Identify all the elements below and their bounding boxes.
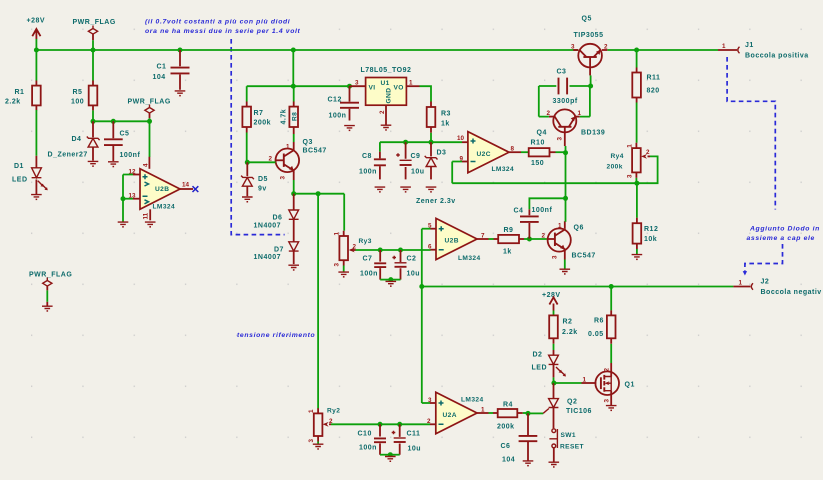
transistor Q4 BD139 <box>553 109 576 132</box>
svg-text:100n: 100n <box>360 271 378 278</box>
ground under U2D inputs <box>118 222 129 228</box>
wire row y=86 <box>247 85 350 87</box>
svg-text:Q5: Q5 <box>582 16 592 23</box>
wire tensione riferimento vertical <box>317 194 319 409</box>
svg-text:1: 1 <box>558 223 562 230</box>
svg-text:4.7k: 4.7k <box>281 109 288 125</box>
wire feedback row y=183.2 <box>452 182 637 184</box>
svg-text:C6: C6 <box>501 443 511 450</box>
wire gate row to Q1 <box>554 382 582 384</box>
switch SW1 RESET <box>552 429 556 433</box>
svg-text:LED: LED <box>12 177 28 184</box>
ground under C6 <box>523 461 534 467</box>
svg-text:820: 820 <box>647 88 660 95</box>
svg-text:150: 150 <box>531 160 544 167</box>
resistor R10 150 <box>529 148 550 156</box>
svg-text:R6: R6 <box>594 318 604 325</box>
svg-text:LM324: LM324 <box>153 204 176 211</box>
svg-text:C9: C9 <box>411 153 421 160</box>
svg-text:3: 3 <box>557 137 564 141</box>
svg-text:100n: 100n <box>329 113 347 120</box>
svg-text:SW1: SW1 <box>561 432 577 439</box>
svg-text:12: 12 <box>129 169 137 176</box>
svg-text:R3: R3 <box>441 111 451 118</box>
ground under SW1 <box>549 462 560 468</box>
diode D4 zener <box>92 121 94 137</box>
svg-text:2: 2 <box>547 110 551 117</box>
svg-text:ora ne ha messi due in serie p: ora ne ha messi due in serie per 1.4 vol… <box>145 28 301 35</box>
svg-text:R2: R2 <box>563 319 573 326</box>
svg-text:BC547: BC547 <box>303 148 327 155</box>
svg-text:J2: J2 <box>761 279 770 286</box>
wire Ry3 wiper row y=250 <box>356 249 431 251</box>
resistor R2 2.2k <box>553 315 555 343</box>
svg-text:Ry4: Ry4 <box>611 153 624 160</box>
ground under Q1 <box>606 406 617 412</box>
svg-text:Boccola positiva: Boccola positiva <box>745 53 809 60</box>
svg-text:100nf: 100nf <box>120 152 141 159</box>
ground under U1 <box>381 125 392 131</box>
ground under C8 <box>375 187 386 193</box>
resistor R12 10k <box>636 183 638 218</box>
wire row y=142.8 (C8 C9 D3 to pin10) <box>380 141 462 143</box>
thyristor Q2 TIC106 <box>553 383 555 399</box>
resistor R3 1k <box>420 86 432 101</box>
svg-text:TIC106: TIC106 <box>566 408 592 415</box>
svg-text:100nf: 100nf <box>532 207 553 214</box>
svg-text:C10: C10 <box>358 431 372 438</box>
diode D6 1N4007 <box>293 194 295 210</box>
svg-text:1k: 1k <box>503 249 512 256</box>
svg-text:10: 10 <box>457 135 465 142</box>
ground under Ry2 <box>313 444 324 450</box>
svg-text:1: 1 <box>578 110 582 117</box>
capacitor C12 100n <box>349 86 351 120</box>
svg-text:LM324: LM324 <box>458 255 481 262</box>
svg-text:R9: R9 <box>504 227 514 234</box>
svg-text:1: 1 <box>627 144 634 148</box>
svg-text:TIP3055: TIP3055 <box>574 32 604 39</box>
ground under C10/C11 <box>385 457 396 463</box>
svg-text:10u: 10u <box>411 169 425 176</box>
svg-text:C8: C8 <box>362 153 372 160</box>
svg-text:LM324: LM324 <box>492 166 515 173</box>
pin 12 wire <box>133 174 140 176</box>
ground under R12 <box>632 255 643 261</box>
svg-text:D5: D5 <box>258 176 268 183</box>
svg-text:10u: 10u <box>407 271 421 278</box>
potentiometer Ry4 200k <box>635 143 637 178</box>
ground under U2D pin11 <box>145 222 156 228</box>
svg-text:LM324: LM324 <box>461 397 484 404</box>
wire main +28V rail <box>36 49 578 51</box>
ground under C5 <box>108 162 119 168</box>
wire U2B pin5 from vertical <box>421 229 423 403</box>
svg-text:2.2k: 2.2k <box>5 99 21 106</box>
svg-text:100n: 100n <box>359 445 377 452</box>
ground under D3 <box>426 187 437 193</box>
capacitor C4 100nf <box>528 209 530 239</box>
svg-text:200k: 200k <box>254 120 272 127</box>
svg-text:GND: GND <box>386 88 393 104</box>
svg-text:U2C: U2C <box>477 151 491 158</box>
capacitor C6 104 <box>527 413 529 460</box>
svg-text:0.05: 0.05 <box>588 331 604 338</box>
ground under C7/C2 <box>386 281 397 287</box>
svg-text:6: 6 <box>428 244 432 251</box>
ground under C12 <box>344 126 355 132</box>
svg-text:104: 104 <box>153 74 166 81</box>
svg-text:C7: C7 <box>363 256 373 263</box>
svg-text:100n: 100n <box>359 169 377 176</box>
resistor R8 4.7k (vertical labels) <box>293 86 295 101</box>
svg-text:3300pf: 3300pf <box>553 98 578 105</box>
svg-text:R1: R1 <box>15 89 25 96</box>
diode D5 zener 9v <box>246 162 248 176</box>
resistor R4 200k <box>493 412 498 414</box>
wire node row R5/D4/C5/flag <box>93 120 150 122</box>
capacitor C3 3300pf <box>539 85 557 87</box>
svg-text:Q4: Q4 <box>537 130 547 137</box>
svg-text:5: 5 <box>428 223 432 230</box>
svg-text:2.2k: 2.2k <box>562 329 578 336</box>
svg-text:C11: C11 <box>407 431 421 438</box>
svg-text:3: 3 <box>604 399 611 403</box>
svg-text:2: 2 <box>542 233 546 240</box>
svg-text:R11: R11 <box>647 75 661 82</box>
svg-text:R10: R10 <box>531 140 545 147</box>
op-amp U2C LM324 (pins 10,9,8) <box>468 132 509 173</box>
svg-text:3: 3 <box>334 263 341 267</box>
svg-text:C4: C4 <box>514 208 524 215</box>
diode D7 1N4007 <box>289 242 299 251</box>
ground under D5 <box>242 197 253 203</box>
ground under C1 <box>175 91 186 97</box>
svg-text:D_Zener27: D_Zener27 <box>48 152 88 159</box>
svg-text:1: 1 <box>409 80 413 87</box>
svg-text:Q6: Q6 <box>574 225 584 232</box>
svg-text:2: 2 <box>604 368 611 372</box>
svg-text:3: 3 <box>627 174 634 178</box>
svg-text:2: 2 <box>604 44 608 51</box>
svg-text:U2B: U2B <box>445 238 459 245</box>
resistor R1 <box>35 50 37 81</box>
svg-text:BD139: BD139 <box>581 130 605 137</box>
ground under PWR_FLAG <box>42 306 53 312</box>
svg-text:104: 104 <box>502 457 515 464</box>
capacitor C9 10u (polarized) <box>405 142 407 179</box>
svg-text:C2: C2 <box>407 256 417 263</box>
pin 13 wire <box>133 198 140 200</box>
svg-text:11: 11 <box>142 212 149 219</box>
svg-text:1: 1 <box>308 409 315 413</box>
svg-text:2: 2 <box>427 418 431 425</box>
svg-text:D1: D1 <box>14 163 24 170</box>
svg-text:U1: U1 <box>381 80 390 87</box>
note: linea blu tratteggiata sinistra <box>231 39 284 235</box>
svg-text:1: 1 <box>583 377 587 384</box>
svg-text:2: 2 <box>646 149 650 156</box>
wire Q3 base <box>247 161 275 163</box>
wire to SCR gate <box>528 412 543 414</box>
svg-text:1: 1 <box>722 43 726 50</box>
wire from rail down to row y=86 <box>292 50 294 86</box>
svg-text:R5: R5 <box>73 89 83 96</box>
svg-text:(il 0.7volt costanti a più con: (il 0.7volt costanti a più con più diodi <box>145 19 290 26</box>
svg-text:3: 3 <box>308 439 315 443</box>
capacitor C1 104 <box>179 50 181 90</box>
svg-text:assieme a cap ele: assieme a cap ele <box>747 235 816 242</box>
svg-text:Q2: Q2 <box>567 399 577 406</box>
svg-text:L78L05_TO92: L78L05_TO92 <box>361 67 412 74</box>
svg-text:Aggiunto Diodo in: Aggiunto Diodo in <box>749 226 820 233</box>
note: linea blu tratteggiata da J1 a J2 <box>727 57 775 210</box>
resistor R9 1k <box>494 238 499 240</box>
svg-text:U2B: U2B <box>155 186 169 193</box>
svg-text:3: 3 <box>571 44 575 51</box>
op-amp U2D LM324 (pins 12,13,14) <box>140 169 180 210</box>
svg-text:+28V: +28V <box>27 18 46 25</box>
svg-text:VO: VO <box>394 85 404 92</box>
svg-text:9: 9 <box>460 156 464 163</box>
svg-text:3: 3 <box>428 397 432 404</box>
op-amp U2A LM324 (pins 3,2,1) <box>436 392 477 433</box>
transistor Q6 BC547 <box>548 228 571 251</box>
wire rail right of Q5 to J1 <box>607 49 718 51</box>
resistor R5 <box>92 81 94 86</box>
svg-text:3: 3 <box>355 80 359 87</box>
resistor R6 0.05 <box>610 287 612 311</box>
transistor Q1 MOSFET <box>595 371 619 395</box>
svg-text:BC547: BC547 <box>572 253 596 260</box>
wire Q4 node vertical <box>565 146 567 198</box>
capacitor C5 100nf <box>112 121 114 161</box>
diode D1 LED <box>35 156 37 168</box>
svg-text:8: 8 <box>511 146 515 153</box>
svg-text:R8: R8 <box>292 112 299 121</box>
svg-text:Boccola negativ: Boccola negativ <box>761 289 822 296</box>
svg-text:Zener 2.3v: Zener 2.3v <box>416 198 456 205</box>
svg-text:2: 2 <box>379 110 386 114</box>
potentiometer Ry2 <box>317 408 319 441</box>
transistor Q3 BC547 <box>276 149 300 173</box>
svg-text:R7: R7 <box>254 110 264 117</box>
svg-text:10u: 10u <box>408 446 422 453</box>
transistor Q5 TIP3055 <box>578 44 602 68</box>
svg-text:Ry3: Ry3 <box>359 238 372 245</box>
potentiometer Ry3 <box>343 194 345 231</box>
svg-text:LED: LED <box>532 365 548 372</box>
diode D2 LED <box>553 350 555 355</box>
ground under Ry3 <box>338 272 349 278</box>
connector J1 pin 1 <box>718 49 737 51</box>
ground under Q6 <box>560 269 571 275</box>
svg-text:3: 3 <box>280 176 287 180</box>
node rail junctions <box>34 48 39 53</box>
svg-text:10k: 10k <box>644 236 657 243</box>
svg-text:14: 14 <box>182 182 190 189</box>
svg-text:7: 7 <box>481 233 485 240</box>
capacitor C7 100n <box>379 250 381 280</box>
svg-text:D4: D4 <box>72 136 82 143</box>
svg-text:13: 13 <box>129 193 137 200</box>
svg-text:D3: D3 <box>437 150 447 157</box>
svg-text:D6: D6 <box>273 215 283 222</box>
resistor R11 820 <box>636 50 638 68</box>
svg-text:1: 1 <box>481 407 485 414</box>
svg-text:R4: R4 <box>503 402 513 409</box>
connector J2 pin 1 <box>422 286 734 288</box>
svg-text:R12: R12 <box>644 226 658 233</box>
svg-text:9v: 9v <box>258 186 267 193</box>
opamp U2D markings <box>143 174 148 196</box>
wire row y=193.7 (emitter to Ry3) <box>294 193 345 195</box>
svg-text:Q1: Q1 <box>625 382 635 389</box>
svg-text:PWR_FLAG: PWR_FLAG <box>29 272 72 279</box>
svg-text:C1: C1 <box>157 64 167 71</box>
ground under D4 <box>88 161 99 167</box>
svg-text:1N4007: 1N4007 <box>254 223 282 230</box>
svg-text:C5: C5 <box>120 131 130 138</box>
svg-text:Q3: Q3 <box>303 139 313 146</box>
diode D3 zener <box>430 142 432 156</box>
svg-text:200k: 200k <box>497 424 515 431</box>
svg-text:200k: 200k <box>607 164 623 171</box>
svg-text:VI: VI <box>369 85 376 92</box>
svg-text:1: 1 <box>334 232 341 236</box>
svg-text:3: 3 <box>552 255 559 259</box>
svg-text:C3: C3 <box>557 69 567 76</box>
svg-text:D2: D2 <box>533 352 543 359</box>
pin 14 output with no-connect X <box>180 188 193 190</box>
svg-text:C12: C12 <box>328 97 342 104</box>
op-amp U2B LM324 (pins 5,6,7) <box>436 218 477 259</box>
svg-text:D7: D7 <box>274 247 284 254</box>
svg-text:1k: 1k <box>441 121 450 128</box>
svg-text:J1: J1 <box>745 42 754 49</box>
capacitor C11 10u (polarized) <box>399 424 401 454</box>
svg-text:100: 100 <box>71 99 84 106</box>
capacitor C10 100n <box>379 424 381 454</box>
resistor R7 200k <box>246 86 248 101</box>
ground under D7 <box>288 265 299 271</box>
svg-text:Ry2: Ry2 <box>327 408 340 415</box>
svg-text:U2A: U2A <box>443 412 457 419</box>
ground under C9 <box>400 187 411 193</box>
ground under D1 <box>31 195 42 201</box>
svg-text:PWR_FLAG: PWR_FLAG <box>128 99 171 106</box>
svg-text:RESET: RESET <box>560 444 584 451</box>
svg-text:1: 1 <box>286 144 290 151</box>
capacitor C2 10u (polarized) <box>400 250 402 280</box>
wire Ry2 wiper row y=424.3 <box>331 423 430 425</box>
svg-text:1: 1 <box>739 280 743 287</box>
capacitor C8 100n <box>379 142 381 152</box>
svg-text:4: 4 <box>142 163 149 167</box>
svg-text:PWR_FLAG: PWR_FLAG <box>73 19 116 26</box>
svg-text:+28V: +28V <box>542 292 561 299</box>
svg-text:1N4007: 1N4007 <box>254 254 282 261</box>
svg-text:tensione riferimento: tensione riferimento <box>237 332 315 339</box>
wire Q3 emitter down <box>293 172 295 180</box>
